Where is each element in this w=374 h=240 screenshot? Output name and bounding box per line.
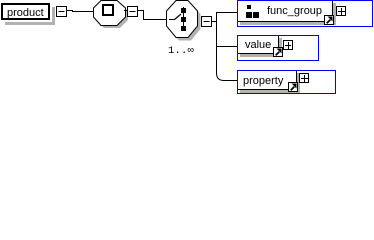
svg-text:func_group: func_group xyxy=(267,5,322,17)
collapse box (minus) after complexType xyxy=(128,7,138,17)
func_group content model frame xyxy=(238,1,373,27)
element product shadow xyxy=(5,7,55,25)
property reference arrow box xyxy=(289,83,298,92)
collapse box (minus) after choice xyxy=(202,17,212,27)
element product box xyxy=(2,4,49,19)
branch to property xyxy=(223,80,237,81)
wire product to complexType octagon xyxy=(67,10,93,12)
func_group reference arrow box xyxy=(325,16,334,25)
property expand box (plus) xyxy=(300,74,309,83)
trunk vertical with branches xyxy=(216,12,224,81)
complexType octagon shadow xyxy=(96,3,128,28)
svg-text:product: product xyxy=(7,7,44,19)
choice icon: three item squares xyxy=(181,8,186,31)
collapse box (minus) after product xyxy=(57,7,67,17)
property content model frame xyxy=(238,71,336,94)
wire octagon to minus box xyxy=(124,10,128,11)
svg-text:value: value xyxy=(245,39,271,51)
property inner box shadow xyxy=(240,73,300,93)
wire minus to choice compositor (stepped) xyxy=(138,10,166,20)
choice icon: vertical rail xyxy=(183,7,184,31)
branch to value xyxy=(216,46,237,47)
element func_group box xyxy=(238,1,333,22)
func_group inner box shadow xyxy=(240,3,336,25)
complexType inner square xyxy=(103,5,113,15)
value content model frame xyxy=(238,36,319,61)
func_group complex icon xyxy=(246,5,259,18)
wire choice to trunk xyxy=(212,21,217,22)
value reference arrow box xyxy=(274,48,283,57)
svg-text:1..∞: 1..∞ xyxy=(168,45,194,57)
choice icon: switch arm xyxy=(169,19,175,20)
element property box xyxy=(238,71,297,90)
choice octagon xyxy=(167,1,198,38)
func_group expand box (plus) xyxy=(337,7,346,16)
value expand box (plus) xyxy=(284,41,293,50)
value inner box shadow xyxy=(240,38,282,57)
complexType octagon xyxy=(94,1,126,26)
element value box xyxy=(238,36,279,54)
branch to func_group xyxy=(216,12,238,13)
choice octagon shadow xyxy=(170,3,201,41)
svg-text:property: property xyxy=(243,75,284,87)
